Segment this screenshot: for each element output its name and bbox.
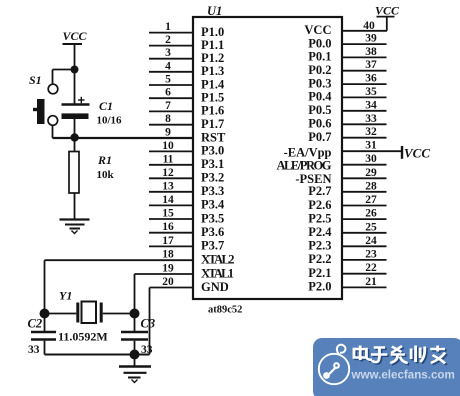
svg-text:30: 30	[365, 153, 377, 165]
svg-text:3: 3	[165, 47, 171, 59]
svg-text:ALE/PROG: ALE/PROG	[277, 159, 332, 173]
svg-text:P0.3: P0.3	[308, 76, 331, 90]
svg-text:28: 28	[365, 180, 377, 192]
svg-text:8: 8	[165, 113, 171, 125]
svg-text:33: 33	[28, 344, 40, 356]
svg-text:P0.6: P0.6	[308, 117, 331, 131]
svg-text:at89c52: at89c52	[208, 305, 242, 316]
svg-text:19: 19	[162, 263, 174, 275]
svg-text:P3.4: P3.4	[201, 198, 225, 212]
svg-text:C3: C3	[141, 317, 156, 331]
svg-text:P0.2: P0.2	[308, 63, 331, 77]
svg-text:P0.1: P0.1	[308, 50, 331, 64]
svg-text:P1.4: P1.4	[201, 77, 225, 91]
svg-text:P1.6: P1.6	[201, 104, 224, 118]
svg-text:21: 21	[365, 276, 377, 288]
svg-text:23: 23	[365, 248, 377, 260]
svg-text:P2.4: P2.4	[308, 225, 332, 239]
svg-text:U1: U1	[207, 4, 222, 18]
svg-text:P3.3: P3.3	[201, 184, 224, 198]
svg-text:P1.2: P1.2	[201, 51, 224, 65]
svg-text:11.0592M: 11.0592M	[58, 330, 108, 344]
svg-text:15: 15	[162, 208, 174, 220]
svg-text:VCC: VCC	[404, 146, 430, 161]
svg-text:29: 29	[365, 167, 377, 179]
svg-text:C2: C2	[28, 317, 43, 331]
svg-text:9: 9	[165, 127, 171, 139]
svg-text:5: 5	[165, 74, 171, 86]
svg-text:35: 35	[365, 86, 377, 98]
svg-text:31: 31	[365, 140, 377, 152]
svg-text:P1.0: P1.0	[201, 25, 224, 39]
svg-text:S1: S1	[29, 73, 42, 87]
svg-text:P1.1: P1.1	[201, 38, 224, 52]
svg-text:36: 36	[365, 73, 377, 85]
svg-text:XTAL1: XTAL1	[201, 266, 234, 280]
svg-text:2: 2	[165, 34, 171, 46]
svg-text:1: 1	[165, 21, 171, 33]
svg-text:P2.6: P2.6	[308, 198, 331, 212]
svg-text:P1.5: P1.5	[201, 91, 224, 105]
svg-text:P1.3: P1.3	[201, 64, 224, 78]
svg-text:40: 40	[363, 20, 375, 32]
svg-text:20: 20	[162, 276, 174, 288]
svg-text:P0.7: P0.7	[308, 130, 331, 144]
svg-text:10k: 10k	[97, 169, 115, 181]
svg-text:16: 16	[162, 221, 174, 233]
svg-text:25: 25	[365, 221, 377, 233]
svg-text:24: 24	[365, 235, 377, 247]
svg-text:37: 37	[365, 59, 377, 71]
svg-text:P0.0: P0.0	[308, 36, 331, 50]
svg-text:39: 39	[365, 33, 377, 45]
svg-text:11: 11	[163, 153, 174, 165]
svg-text:XTAL2: XTAL2	[201, 253, 235, 267]
svg-text:P2.5: P2.5	[308, 211, 331, 225]
svg-text:38: 38	[365, 46, 377, 58]
svg-text:P3.0: P3.0	[201, 144, 224, 158]
svg-text:12: 12	[162, 167, 174, 179]
svg-text:34: 34	[365, 99, 377, 111]
svg-text:P1.7: P1.7	[201, 117, 224, 131]
svg-text:P2.2: P2.2	[308, 252, 331, 266]
svg-text:P2.0: P2.0	[308, 280, 331, 294]
svg-text:33: 33	[365, 113, 377, 125]
svg-text:Y1: Y1	[59, 289, 72, 303]
svg-text:P2.1: P2.1	[308, 266, 331, 280]
svg-text:RST: RST	[201, 130, 226, 144]
svg-text:17: 17	[162, 235, 174, 247]
svg-text:VCC: VCC	[62, 29, 87, 43]
svg-text:27: 27	[365, 194, 377, 206]
svg-text:P2.7: P2.7	[308, 184, 331, 198]
svg-text:14: 14	[162, 194, 174, 206]
svg-text:P0.4: P0.4	[308, 90, 332, 104]
svg-text:4: 4	[165, 60, 171, 72]
svg-text:GND: GND	[201, 280, 229, 294]
svg-text:P3.1: P3.1	[201, 157, 224, 171]
svg-text:22: 22	[365, 262, 377, 274]
svg-text:13: 13	[162, 180, 174, 192]
svg-text:26: 26	[365, 208, 377, 220]
svg-text:VCC: VCC	[375, 4, 400, 18]
svg-text:P3.6: P3.6	[201, 225, 224, 239]
svg-text:P3.2: P3.2	[201, 171, 224, 185]
svg-text:P2.3: P2.3	[308, 239, 331, 253]
svg-text:P0.5: P0.5	[308, 103, 331, 117]
svg-text:18: 18	[162, 249, 174, 261]
svg-text:VCC: VCC	[304, 23, 331, 37]
svg-text:www.elecfans.com: www.elecfans.com	[351, 369, 455, 382]
svg-text:P3.7: P3.7	[201, 239, 224, 253]
svg-text:C1: C1	[99, 99, 113, 113]
svg-text:10: 10	[162, 140, 174, 152]
svg-text:6: 6	[165, 87, 171, 99]
svg-text:32: 32	[365, 126, 377, 138]
svg-text:P3.5: P3.5	[201, 211, 224, 225]
svg-text:R1: R1	[97, 153, 112, 167]
svg-text:-EA/Vpp: -EA/Vpp	[284, 146, 332, 160]
svg-text:10/16: 10/16	[97, 115, 123, 127]
svg-text:7: 7	[165, 100, 171, 112]
